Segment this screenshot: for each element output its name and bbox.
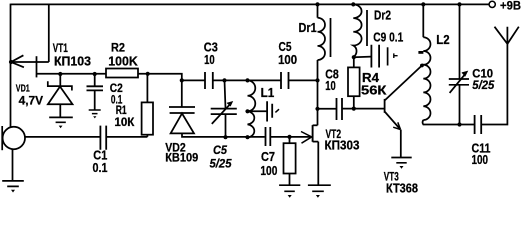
wire oscillator line bend to C3 bbox=[182, 79, 205, 81]
transistor VT3 emitter diagonal bbox=[385, 112, 400, 130]
svg-text:КП103: КП103 bbox=[54, 55, 91, 69]
transistor VT2 drain jog bbox=[313, 124, 318, 126]
capacitor C6 coupling plates bbox=[281, 72, 289, 89]
microphone BM1 circle bbox=[3, 127, 25, 149]
wire L1 tap to coupling capacitor bbox=[248, 110, 268, 112]
wire R1 bottom lead bbox=[146, 135, 148, 137]
trimmer capacitor C5 bottom lead bbox=[225, 114, 227, 137]
transistor VT2 source jog bbox=[313, 141, 319, 143]
wire VD2 drop bbox=[181, 80, 183, 107]
varicap VD2 triangle bbox=[171, 113, 194, 133]
ground under C2 bbox=[89, 110, 101, 114]
capacitor C9 tick mark bbox=[394, 53, 398, 58]
resistor R2 body bbox=[106, 69, 138, 78]
svg-text:С9 0.1: С9 0.1 bbox=[373, 29, 403, 44]
wire microphone to ground bbox=[12, 149, 14, 181]
svg-text:C5: C5 bbox=[213, 143, 227, 157]
svg-text:100: 100 bbox=[260, 164, 277, 178]
node VT2 drain junction dot bbox=[315, 107, 319, 111]
inductor L2 lead from bus bbox=[422, 4, 424, 37]
svg-text:R1: R1 bbox=[116, 105, 127, 117]
inductor L1 upper humps bbox=[248, 80, 256, 111]
capacitor C2 plates bbox=[87, 86, 104, 90]
wire left vertical from bus to microphone bbox=[10, 4, 12, 128]
ground under R3 bbox=[279, 185, 300, 191]
wire R1 top lead bbox=[146, 74, 148, 103]
varicap VD2 double cathode bars bbox=[169, 107, 195, 113]
svg-text:КВ109: КВ109 bbox=[165, 153, 198, 165]
capacitor C2 lead bbox=[94, 74, 96, 86]
svg-text:КТ368: КТ368 bbox=[386, 182, 418, 196]
wire C11 to antenna mast bbox=[481, 27, 507, 125]
inductor Dr1 humps bbox=[318, 18, 326, 60]
svg-text:10: 10 bbox=[204, 53, 215, 67]
capacitor C9 stub bar bbox=[387, 47, 389, 65]
transistor VT3 base bar bbox=[384, 99, 386, 113]
node L2 tap stub dash bbox=[418, 51, 423, 54]
svg-text:10: 10 bbox=[325, 79, 336, 93]
wire VT2 drain to C8 bbox=[318, 108, 337, 110]
svg-text:R2: R2 bbox=[111, 40, 125, 54]
svg-text:+9В: +9В bbox=[500, 0, 521, 12]
node VT1 gate junction dot bbox=[9, 60, 13, 64]
capacitor C8 plates bbox=[337, 98, 343, 120]
terminal +9V circle bbox=[489, 1, 495, 7]
capacitor C9 plates bbox=[371, 45, 379, 68]
svg-text:VT1: VT1 bbox=[53, 43, 68, 55]
transistor VT3 collector diagonal bbox=[385, 64, 424, 101]
wire R3 top lead bbox=[289, 137, 291, 143]
ground under VT3 bbox=[391, 158, 411, 163]
svg-text:КП303: КП303 bbox=[325, 138, 360, 152]
node Dr2 bus junction dot bbox=[351, 2, 355, 6]
svg-text:100K: 100K bbox=[108, 55, 138, 69]
wire C6 to Dr1 bottom node bbox=[289, 79, 318, 81]
capacitor on L1 tap plates bbox=[267, 101, 272, 121]
resistor R1 body bbox=[142, 102, 153, 134]
svg-text:Dr2: Dr2 bbox=[374, 8, 391, 23]
svg-text:4,7V: 4,7V bbox=[19, 95, 44, 107]
wire VD2 anode bend to bottom line bbox=[182, 133, 265, 137]
trimmer capacitor C5 top lead bbox=[225, 80, 226, 108]
node R4 bottom junction dot bbox=[352, 107, 356, 111]
inductor Dr2 humps bbox=[353, 4, 361, 56]
node VD2 top junction dot bbox=[180, 78, 184, 82]
wire C8 to R4 bottom node bbox=[342, 108, 385, 110]
trimmer capacitor C10 arrow bbox=[450, 73, 466, 93]
wire C10 branch from bus bbox=[459, 4, 461, 79]
resistor R4 body bbox=[348, 67, 360, 96]
wire C7 to VT2 gate bbox=[270, 136, 311, 138]
svg-text:10К: 10К bbox=[114, 117, 135, 129]
svg-text:C5: C5 bbox=[279, 40, 292, 54]
svg-text:5/25: 5/25 bbox=[472, 78, 494, 92]
node L2 collector junction dot bbox=[420, 64, 424, 68]
microphone membrane line bbox=[1, 126, 3, 150]
node R3 top junction dot bbox=[287, 135, 291, 139]
capacitor C11 plates bbox=[475, 115, 482, 134]
node Dr2 bottom junction dot bbox=[352, 55, 356, 59]
ground under microphone bbox=[2, 181, 24, 187]
transistor VT1 gate arrow bbox=[11, 55, 24, 67]
wire main horizontal to R2 bbox=[37, 73, 107, 75]
node L2 bus junction dot bbox=[421, 2, 425, 6]
wire VT1 horizontal channel line bbox=[11, 61, 49, 63]
wire R2 right to bend bbox=[138, 74, 182, 81]
node VD1 junction dot bbox=[58, 72, 62, 76]
svg-text:Dr1: Dr1 bbox=[299, 20, 317, 35]
wire L2 bottom bend bbox=[423, 120, 475, 125]
inductor Dr2 core line bbox=[366, 10, 368, 46]
node Dr1 bus junction dot bbox=[315, 2, 319, 6]
svg-text:100: 100 bbox=[278, 53, 297, 67]
trimmer capacitor C5 plates bbox=[211, 109, 237, 115]
transistor VT2 channel bar bbox=[312, 125, 314, 142]
wire R4 bottom lead bbox=[353, 96, 355, 108]
wire R4 top lead bbox=[353, 57, 355, 67]
node Dr1 bottom junction dot bbox=[315, 78, 319, 82]
node C10 bus junction dot bbox=[457, 2, 461, 6]
wire top supply bus bbox=[11, 3, 489, 5]
wire VD1 to ground bbox=[59, 104, 61, 117]
wire VT2 source to ground bbox=[317, 142, 319, 186]
node C5 bottom junction dot bbox=[223, 135, 227, 139]
node C2 junction dot bbox=[93, 72, 97, 76]
diode VD1 triangle bbox=[48, 87, 73, 105]
resistor R3 body bbox=[284, 143, 296, 173]
antenna arms bbox=[495, 27, 519, 44]
svg-text:VD1: VD1 bbox=[16, 83, 30, 95]
inductor Dr1 lead from bus bbox=[317, 4, 319, 17]
trimmer capacitor C10 plates bbox=[449, 79, 469, 85]
svg-text:5/25: 5/25 bbox=[210, 157, 232, 171]
diode VD1 zener lead bbox=[59, 74, 61, 86]
diode VD1 cathode bar with end ticks bbox=[48, 81, 72, 90]
node L1 tap junction dot bbox=[245, 109, 249, 113]
capacitor C3 plates bbox=[205, 72, 213, 89]
svg-text:L2: L2 bbox=[436, 32, 449, 47]
wire VT1 drain drop from bus bbox=[48, 4, 50, 62]
transistor VT2 gate arrow bbox=[301, 132, 312, 144]
svg-text:100: 100 bbox=[472, 153, 489, 167]
svg-text:C2: C2 bbox=[110, 83, 123, 95]
inductor L2 humps bbox=[423, 37, 430, 120]
capacitor C1 plates bbox=[100, 126, 106, 150]
transistor VT3 emitter arrow bbox=[393, 122, 400, 129]
wire VT3 emitter to ground bbox=[400, 130, 402, 158]
inductor Dr1 core line bbox=[330, 18, 332, 57]
node L1 top junction dot bbox=[245, 78, 249, 82]
wire Dr2 node to C9 bbox=[354, 56, 372, 59]
ground under VT2 bbox=[308, 185, 331, 191]
node L1 bottom junction dot bbox=[245, 135, 249, 139]
wire R3 bottom lead bbox=[289, 174, 291, 186]
transistor VT1 channel bar bbox=[36, 56, 38, 77]
capacitor tap stub tick bbox=[275, 109, 279, 112]
node C5 trimmer top junction dot bbox=[222, 78, 226, 82]
svg-text:0.1: 0.1 bbox=[93, 161, 108, 175]
wire C3 to L1 top bbox=[213, 79, 281, 81]
node R1 top junction dot bbox=[146, 72, 150, 76]
svg-text:L1: L1 bbox=[261, 85, 275, 100]
capacitor C7 plates bbox=[266, 127, 271, 146]
node C10 bottom junction dot bbox=[457, 122, 461, 126]
wire C1 to R1 bottom bbox=[106, 136, 147, 138]
svg-text:56К: 56К bbox=[361, 83, 387, 97]
wire C2 to ground bbox=[94, 90, 96, 109]
trimmer capacitor C5 arrow bbox=[212, 103, 231, 124]
wire microphone to C1 bbox=[25, 136, 101, 138]
ground under VD1 bbox=[49, 117, 73, 122]
inductor L1 lower humps bbox=[248, 111, 255, 137]
wire Dr1 to VT2 drain bbox=[317, 60, 319, 125]
svg-text:C7: C7 bbox=[261, 150, 275, 164]
wire C10 to bottom node bbox=[459, 85, 461, 125]
